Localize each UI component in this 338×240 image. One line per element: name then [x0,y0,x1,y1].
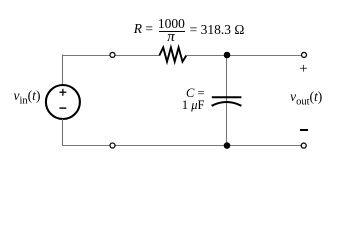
label R equation: fraction bar [159,31,185,32]
voltage source plus sign [59,89,66,96]
wire top right (resistor to output terminal) [186,55,301,57]
node terminal top-left (open circle) [110,52,115,57]
label vin(t) [14,89,41,107]
label plus (output) [299,62,307,77]
wire left vertical upper (top wire down to source) [62,55,64,86]
node terminal bottom-left (open circle) [110,143,115,148]
voltage source minus sign [59,107,66,109]
wire bottom-left horizontal [62,145,109,147]
label R equation: R = [134,22,153,36]
junction node bottom (filled dot) [224,142,231,149]
capacitor C1 top plate [212,96,242,98]
label vout(t) [290,90,322,108]
wire capacitor branch vertical [226,55,228,146]
capacitor C1 bottom curved plate [212,102,242,106]
wire top middle (terminal to resistor) [116,55,160,57]
node terminal top-right (open circle) [302,52,307,57]
node terminal bottom-right (open circle) [301,143,306,148]
label R equation: = 318.3 Ohm [190,23,245,37]
wire left vertical lower (source down to bottom wire) [62,119,64,146]
resistor R1 zigzag [159,48,186,62]
label R equation: denominator pi [167,30,175,45]
label C value [165,88,205,112]
junction node top (filled dot) [224,52,231,59]
voltage source V1 circle [46,85,80,119]
label R equation: numerator 1000 [158,17,185,31]
wire top-left horizontal [62,55,109,57]
label minus (output) [300,129,307,131]
wire bottom horizontal [116,145,301,147]
